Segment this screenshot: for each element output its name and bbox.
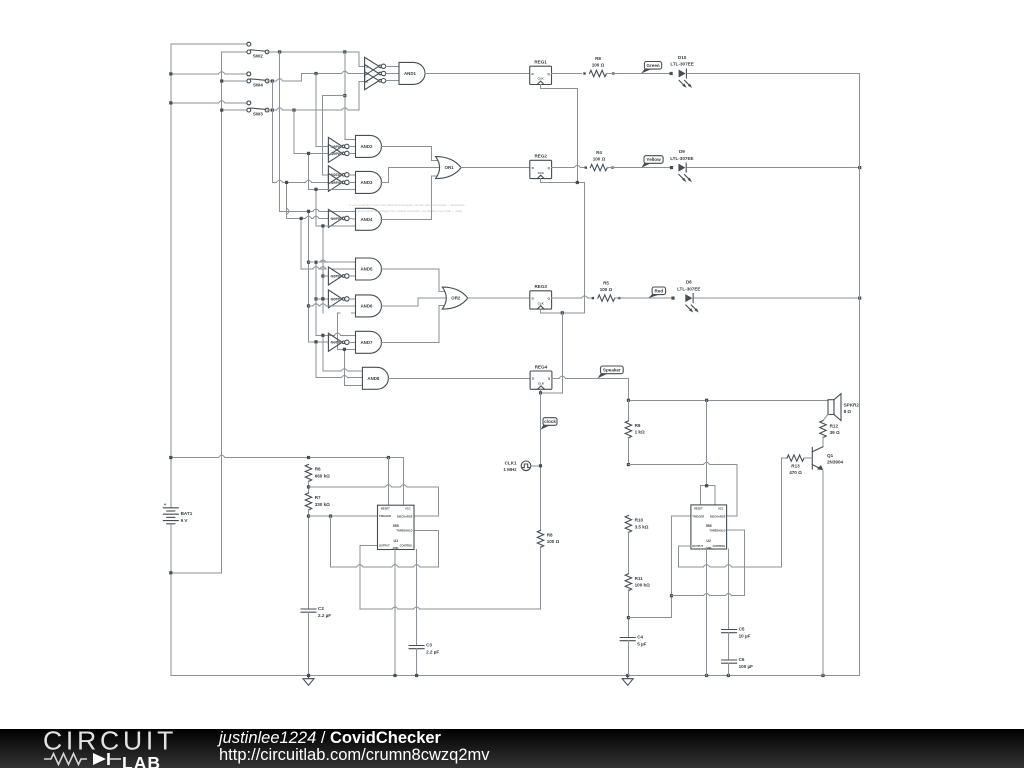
svg-text:GND: GND	[393, 546, 399, 550]
wire hops	[219, 72, 225, 74]
svg-text:THRESHOLD: THRESHOLD	[709, 528, 725, 532]
wire bus A	[279, 52, 281, 211]
AND gate AND6	[356, 295, 382, 317]
wire AND6 out	[381, 305, 418, 307]
wire bus C1	[293, 110, 295, 153]
wire D10 to rail	[687, 73, 860, 75]
svg-text:VCC: VCC	[718, 506, 724, 510]
wire NOT2 out	[351, 152, 356, 154]
resistor R11	[625, 574, 631, 591]
wire AND2 in1	[345, 138, 356, 140]
svg-text:CLK: CLK	[538, 171, 545, 175]
wire X out	[386, 65, 399, 67]
transistor Q1 2N3904	[811, 448, 813, 470]
wire speaker node	[628, 399, 828, 401]
svg-text:39 Ω: 39 Ω	[830, 430, 840, 435]
svg-text:AND2: AND2	[361, 144, 374, 149]
svg-text:OUTPUT: OUTPUT	[379, 544, 390, 548]
wire AND8 in2	[316, 377, 341, 379]
flag Green	[641, 68, 651, 74]
wire bus D1	[337, 313, 339, 349]
NOT gate NOT3	[328, 166, 342, 184]
LED D10	[679, 70, 686, 78]
switch SW4	[247, 72, 251, 76]
wire switch common rail	[221, 52, 223, 573]
inverter Z	[365, 72, 379, 90]
NOT gate NOT4	[328, 173, 342, 191]
wire NOT1 out	[351, 145, 356, 147]
svg-text:555: 555	[393, 524, 399, 528]
resistor R4	[590, 164, 607, 170]
svg-text:AND6: AND6	[361, 304, 374, 309]
svg-text:100 Ω: 100 Ω	[547, 539, 560, 544]
wire clk line down	[584, 183, 586, 313]
wire AND5 in1	[309, 261, 313, 263]
svg-text:2.2 µF: 2.2 µF	[318, 613, 331, 618]
svg-text:AND1: AND1	[404, 71, 417, 76]
AND gate AND3	[356, 171, 382, 193]
resistor R13	[781, 457, 787, 459]
ground	[627, 676, 629, 679]
register REG2 (D flip-flop)	[530, 160, 552, 178]
wire U1 TRIGGER	[309, 515, 378, 517]
wire bus BC2	[286, 182, 288, 218]
wire NOT7 in	[316, 298, 328, 300]
wire AND5 out	[381, 268, 439, 270]
AND gate AND2	[356, 135, 382, 157]
wire bus BC3	[300, 218, 302, 268]
svg-text:TRIGGER: TRIGGER	[379, 514, 391, 518]
wire REG4 Q out	[552, 377, 559, 379]
svg-text:REG1: REG1	[534, 60, 547, 65]
wire U1 CONTROL	[416, 550, 418, 646]
svg-text:THRESHOLD: THRESHOLD	[396, 529, 412, 533]
wire U2 reset-vcc bar	[700, 485, 715, 487]
wire NOT2 in	[294, 152, 328, 154]
wire U2 GND	[706, 549, 708, 676]
svg-text:Q1: Q1	[827, 453, 834, 458]
flag Yellow	[642, 162, 652, 168]
AND gate AND8	[362, 367, 388, 389]
wire AND7 in3	[338, 348, 356, 350]
svg-text:C3: C3	[426, 643, 432, 648]
AND gate AND7	[356, 331, 382, 353]
svg-text:CONTROL: CONTROL	[713, 544, 726, 548]
wire AND6 in3 elbow	[338, 312, 341, 314]
capacitor C6	[722, 659, 737, 661]
IC U2 555 timer	[691, 505, 727, 549]
wire NOT3 in	[323, 174, 329, 176]
svg-text:R9: R9	[635, 423, 641, 428]
wire R6-R7	[308, 481, 310, 493]
wire trig-thresh link	[330, 516, 332, 567]
wire bus C2	[308, 153, 310, 189]
wire clock to CLK1	[540, 393, 542, 531]
svg-text:R7: R7	[315, 495, 321, 500]
wire AND4 in3	[316, 225, 356, 227]
wire R12 to collector	[822, 437, 824, 447]
wire REG1 Q out	[552, 73, 582, 75]
svg-text:Red: Red	[655, 289, 664, 294]
capacitor C3	[409, 645, 424, 647]
wire NOT8 in	[309, 341, 329, 343]
svg-text:R8: R8	[595, 56, 601, 61]
svg-text:555: 555	[706, 524, 712, 528]
svg-text:1 kΩ: 1 kΩ	[635, 430, 645, 435]
LED D8	[685, 294, 692, 302]
wire D9 to rail	[687, 167, 860, 169]
wire to U1 output	[420, 608, 541, 610]
speaker SPKR2 8 ohm	[828, 400, 834, 415]
svg-text:AND8: AND8	[367, 376, 380, 381]
register REG3 (D flip-flop)	[530, 291, 552, 309]
resistor R5	[598, 295, 615, 301]
svg-text:Green: Green	[646, 63, 659, 68]
capacitor C5	[722, 629, 737, 631]
svg-text:CONTROL: CONTROL	[400, 544, 413, 548]
svg-text:If you would like to see more: If you would like to see more advanced e…	[350, 203, 465, 207]
wire REG3 Q out	[552, 297, 582, 299]
register REG1 (D flip-flop)	[530, 66, 552, 84]
ground	[308, 676, 310, 679]
svg-text:OR1: OR1	[445, 165, 455, 170]
resistor R8v	[537, 530, 543, 547]
wire U2 OUTPUT	[679, 545, 691, 547]
wire R10-R11	[627, 532, 629, 574]
svg-text:AND4: AND4	[361, 217, 374, 222]
capacitor C2	[301, 608, 316, 610]
flag Speaker	[598, 372, 608, 378]
wire SW4 throw line	[171, 73, 219, 75]
svg-text:10 µF: 10 µF	[739, 633, 751, 638]
svg-text:AND5: AND5	[361, 267, 374, 272]
svg-text:1 MHz: 1 MHz	[503, 467, 517, 472]
svg-text:SW2: SW2	[253, 54, 263, 59]
resistor R10	[625, 516, 631, 533]
svg-text:SPKR2: SPKR2	[844, 402, 860, 407]
wire battery minus rail	[170, 525, 172, 676]
svg-text:LTL-307EE: LTL-307EE	[670, 62, 693, 67]
svg-text:C2: C2	[318, 606, 324, 611]
svg-text:RESET: RESET	[694, 506, 703, 510]
wire U1 RESET	[387, 458, 389, 506]
inverter X	[365, 57, 379, 75]
wire A2 branch	[323, 95, 345, 97]
wire AND5 in2	[301, 268, 313, 270]
svg-text:Z: Z	[366, 79, 368, 83]
wire X jog	[358, 52, 360, 66]
wire to discharge loop	[309, 486, 386, 488]
wire battery return	[171, 572, 222, 574]
svg-text:100 Ω: 100 Ω	[592, 63, 605, 68]
wire NOT6 in	[323, 275, 329, 277]
svg-text:REG4: REG4	[535, 364, 548, 369]
OR gate OR1	[436, 157, 462, 179]
svg-text:AND3: AND3	[361, 180, 374, 185]
wire to U2 trigger link	[628, 617, 671, 619]
svg-text:LTL-307EE: LTL-307EE	[670, 156, 693, 161]
svg-text:REG2: REG2	[534, 154, 547, 159]
wire Z out	[386, 80, 399, 82]
svg-text:330 kΩ: 330 kΩ	[315, 502, 330, 507]
svg-text:CLK: CLK	[538, 382, 545, 386]
wire AND7 out	[381, 341, 439, 343]
wire speaker node down	[627, 378, 629, 400]
wire SW2 row	[222, 51, 249, 53]
svg-text:CLK: CLK	[538, 77, 545, 81]
flag Red	[648, 293, 659, 298]
wire bus B1	[315, 74, 317, 147]
wire speaker to R12	[823, 414, 828, 420]
wire U2 RESET	[699, 486, 701, 505]
wire REG3 clk	[540, 309, 542, 313]
wire right rail	[859, 74, 861, 676]
wire NOT4 in	[272, 181, 276, 183]
svg-text:DISCHARGE: DISCHARGE	[397, 515, 413, 519]
svg-text:100 Ω: 100 Ω	[593, 157, 606, 162]
wire AND3 out	[381, 181, 388, 183]
svg-text:D10: D10	[678, 55, 687, 60]
wire SW2 throw line	[171, 43, 249, 45]
svg-text:TRIGGER: TRIGGER	[692, 514, 704, 518]
svg-text:CLK1: CLK1	[505, 460, 517, 465]
svg-text:2.2 µF: 2.2 µF	[426, 649, 439, 654]
AND gate AND5	[356, 258, 382, 280]
wire bus A2	[344, 52, 346, 139]
wire to R13	[780, 458, 782, 567]
resistor R7	[305, 493, 311, 510]
wire U2 reset feed	[706, 400, 708, 485]
wire AND8 in1	[323, 370, 341, 372]
svg-text:OUTPUT: OUTPUT	[692, 544, 703, 548]
NOT gate NOT2	[328, 144, 342, 162]
wire Y jog	[301, 74, 303, 82]
svg-text:C6: C6	[739, 657, 745, 662]
wire U2 TRIGGER	[672, 515, 691, 517]
svg-text:U2: U2	[706, 539, 711, 543]
wire REG4 clk	[540, 389, 542, 393]
svg-text:R6: R6	[315, 467, 321, 472]
wire emitter to ground	[822, 470, 824, 675]
svg-text:LTL-307EE: LTL-307EE	[677, 286, 700, 291]
svg-text:REG3: REG3	[534, 284, 547, 289]
svg-text:Speaker: Speaker	[603, 368, 621, 373]
resistor R6	[305, 465, 311, 482]
wire REG2 clk	[539, 179, 541, 183]
svg-text:3.5 kΩ: 3.5 kΩ	[635, 524, 649, 529]
wire U2 VCC	[714, 486, 716, 505]
wire NOT5 in	[287, 217, 306, 219]
wire REG2 Q out	[552, 167, 575, 169]
wire AND1 out to REG1	[425, 73, 530, 75]
wire U1 VCC	[403, 458, 405, 506]
capacitor C4	[620, 637, 635, 639]
svg-text:If you would like to begin fro: If you would like to begin from a blank …	[358, 209, 462, 213]
NOT gate NOT5	[328, 209, 342, 227]
svg-text:C5: C5	[739, 627, 745, 632]
wire SW4 row	[222, 80, 249, 82]
wire SW3 throw line	[171, 102, 219, 104]
wire AND8 in3	[344, 384, 362, 386]
NOT gate NOT8	[328, 333, 342, 351]
wire R7 down	[308, 509, 310, 609]
wire bus B3	[315, 262, 317, 335]
wire bus C3	[308, 211, 310, 341]
svg-text:D9: D9	[679, 149, 685, 154]
NOT gate NOT1	[328, 137, 342, 155]
LED D9	[678, 164, 685, 172]
svg-text:OR2: OR2	[451, 296, 461, 301]
NOT gate NOT6	[328, 267, 342, 285]
wire AND4 out	[381, 218, 432, 220]
svg-text:AND7: AND7	[361, 340, 374, 345]
wire Z jog	[358, 81, 360, 110]
switch SW3	[247, 101, 251, 105]
footer logo resistor	[44, 754, 87, 765]
svg-text:U1: U1	[393, 539, 398, 543]
svg-text:D8: D8	[686, 280, 692, 285]
AND gate AND1	[399, 62, 425, 84]
wire OR1 out to REG2	[461, 167, 530, 169]
wire OR2 out to REG3	[468, 297, 530, 299]
svg-text:2N3904: 2N3904	[827, 460, 844, 465]
wire SW3 row	[222, 109, 249, 111]
svg-text:660 kΩ: 660 kΩ	[315, 473, 330, 478]
svg-text:100 µF: 100 µF	[739, 664, 754, 669]
svg-text:9 V: 9 V	[181, 518, 189, 523]
svg-text:BAT1: BAT1	[181, 511, 193, 516]
resistor R12	[820, 421, 826, 438]
svg-text:DISCHARGE: DISCHARGE	[710, 515, 726, 519]
wire left supply rail	[170, 44, 172, 508]
svg-text:R4: R4	[596, 150, 602, 155]
wire bus D2	[343, 349, 345, 385]
svg-text:clock: clock	[544, 419, 556, 424]
svg-text:R8: R8	[547, 533, 553, 538]
clock source CLK1 1 MHz	[521, 461, 531, 471]
wire bus B4	[315, 342, 317, 378]
svg-text:100 Ω: 100 Ω	[600, 287, 613, 292]
svg-text:5 µF: 5 µF	[637, 641, 646, 646]
wire bus A3	[322, 96, 324, 175]
OR gate OR2	[442, 287, 468, 309]
flag clock	[540, 424, 550, 430]
svg-text:Yellow: Yellow	[646, 157, 661, 162]
resistor R8h	[590, 70, 607, 76]
wire R8 down	[540, 547, 542, 610]
inverter Y	[365, 65, 379, 83]
svg-text:CLK: CLK	[538, 301, 545, 305]
wire REG1 clk	[540, 84, 542, 88]
wire to U2 discharge	[628, 464, 703, 466]
wire AND6 in2	[309, 305, 313, 307]
wire ground line	[171, 675, 860, 677]
battery BAT1 9V	[163, 507, 178, 509]
svg-text:470 Ω: 470 Ω	[789, 470, 802, 475]
wire AND3 in3	[309, 188, 356, 190]
svg-text:RESET: RESET	[381, 507, 390, 511]
svg-text:100 kΩ: 100 kΩ	[635, 583, 650, 588]
svg-text:R12: R12	[830, 423, 839, 428]
wire Y out	[386, 73, 399, 75]
svg-text:R11: R11	[635, 576, 644, 581]
resistor R9	[627, 400, 629, 421]
wire AND8 out to REG4	[388, 377, 530, 379]
svg-text:R10: R10	[635, 518, 644, 523]
footer logo diode	[93, 753, 106, 765]
wire trig-thresh link U2	[672, 595, 704, 597]
svg-text:R5: R5	[603, 281, 609, 286]
AND gate AND4	[356, 208, 382, 230]
wire U2 CONTROL	[727, 549, 729, 630]
wire clk branch	[561, 313, 563, 393]
wire bus B6	[322, 335, 324, 371]
wire AND4 in1	[280, 210, 313, 212]
wire R11 down	[627, 590, 629, 638]
NOT gate NOT7	[328, 290, 342, 308]
wire AND7 in1	[316, 334, 334, 336]
wire AND6 in3 stub	[351, 312, 355, 314]
svg-text:R13: R13	[791, 463, 800, 468]
wire bus B5	[322, 226, 324, 313]
svg-text:8 Ω: 8 Ω	[844, 409, 852, 414]
svg-text:C4: C4	[637, 635, 643, 640]
wire bus B2	[315, 189, 317, 226]
wire NOT1 in	[316, 145, 328, 147]
svg-text:SW4: SW4	[253, 83, 263, 88]
svg-text:+: +	[164, 502, 167, 507]
switch SW2	[247, 42, 251, 46]
svg-text:VCC: VCC	[405, 507, 411, 511]
wire supply row	[171, 457, 219, 459]
wire U1 GND	[394, 550, 396, 676]
wire D8 to rail	[694, 297, 860, 299]
IC U1 555 timer	[378, 505, 415, 549]
wire bus BC	[271, 81, 273, 182]
register REG4 (D flip-flop)	[530, 371, 552, 389]
wire AND2 out	[381, 145, 432, 147]
svg-text:SW3: SW3	[253, 112, 263, 117]
